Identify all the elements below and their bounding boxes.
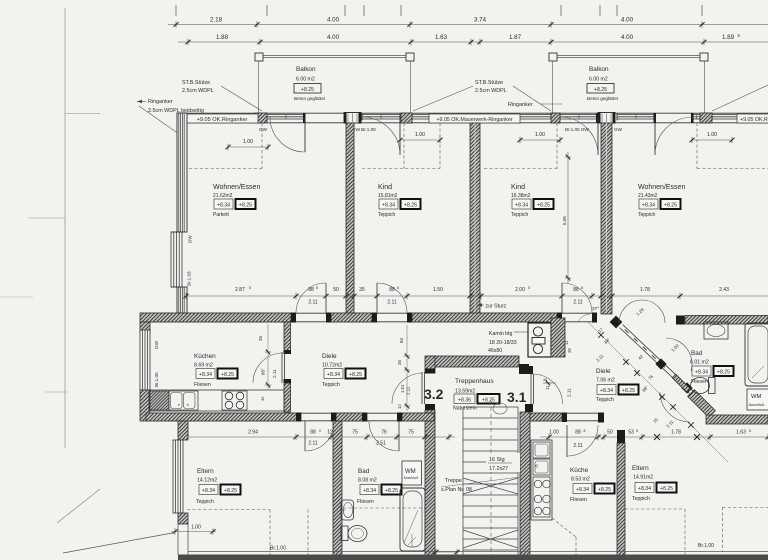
svg-text:Anschluß: Anschluß bbox=[404, 476, 419, 480]
svg-text:+8.34: +8.34 bbox=[638, 486, 651, 492]
svg-text:+8.25: +8.25 bbox=[598, 487, 611, 493]
svg-text:+8.34: +8.34 bbox=[600, 388, 613, 394]
svg-text:Parkett: Parkett bbox=[213, 212, 229, 218]
svg-text:Eltern: Eltern bbox=[632, 465, 649, 472]
svg-text:18 20-18/33: 18 20-18/33 bbox=[489, 340, 517, 346]
svg-text:+8.25: +8.25 bbox=[239, 202, 252, 208]
svg-text:Wohnen/Essen: Wohnen/Essen bbox=[213, 184, 260, 191]
svg-text:+8.25: +8.25 bbox=[404, 202, 417, 208]
svg-text:Küchen: Küchen bbox=[194, 353, 216, 360]
svg-text:+8.34: +8.34 bbox=[695, 369, 708, 375]
svg-text:1.00: 1.00 bbox=[191, 525, 201, 531]
svg-text:Teppich: Teppich bbox=[511, 212, 528, 218]
svg-text:+8.25: +8.25 bbox=[349, 372, 362, 378]
svg-text:Fliesen: Fliesen bbox=[194, 382, 211, 388]
svg-text:1.87: 1.87 bbox=[509, 34, 522, 41]
svg-text:+8.25: +8.25 bbox=[622, 388, 635, 394]
svg-text:+9.05 OK.R: +9.05 OK.R bbox=[740, 117, 768, 123]
svg-text:1.63: 1.63 bbox=[736, 430, 746, 436]
svg-text:7.06 m2: 7.06 m2 bbox=[596, 378, 615, 384]
svg-text:1.50: 1.50 bbox=[433, 287, 443, 293]
svg-text:Kind: Kind bbox=[378, 184, 392, 191]
svg-text:2.11: 2.11 bbox=[308, 441, 318, 447]
svg-text:3.1: 3.1 bbox=[507, 389, 527, 405]
svg-text:2.11: 2.11 bbox=[272, 369, 277, 378]
svg-text:zur Sturz: zur Sturz bbox=[486, 304, 507, 310]
svg-text:Naturstein: Naturstein bbox=[453, 406, 477, 412]
svg-text:88: 88 bbox=[575, 430, 581, 436]
svg-text:76: 76 bbox=[381, 430, 387, 436]
svg-text:+8.25: +8.25 bbox=[537, 202, 550, 208]
svg-text:2.18: 2.18 bbox=[210, 17, 223, 24]
svg-text:Diele: Diele bbox=[322, 353, 337, 360]
svg-text:+8.34: +8.34 bbox=[363, 488, 376, 494]
svg-text:3.74: 3.74 bbox=[474, 17, 487, 24]
svg-text:2.87: 2.87 bbox=[235, 287, 245, 293]
svg-text:11: 11 bbox=[564, 340, 569, 345]
svg-text:53: 53 bbox=[628, 430, 634, 436]
svg-text:e: e bbox=[187, 403, 189, 407]
svg-text:+8.25: +8.25 bbox=[221, 372, 234, 378]
svg-text:0: 0 bbox=[319, 429, 321, 433]
svg-text:2.51: 2.51 bbox=[376, 441, 386, 447]
svg-text:2.5cm WDPL: 2.5cm WDPL bbox=[182, 88, 214, 94]
svg-text:+8.34: +8.34 bbox=[217, 202, 230, 208]
svg-text:5: 5 bbox=[249, 286, 251, 290]
svg-text:+8.34: +8.34 bbox=[642, 202, 655, 208]
svg-text:16 Stg: 16 Stg bbox=[489, 457, 505, 463]
svg-text:Ringanker: Ringanker bbox=[508, 102, 533, 108]
svg-text:Teppich: Teppich bbox=[596, 397, 614, 403]
svg-text:Kind: Kind bbox=[511, 184, 525, 191]
svg-text:Fliesen: Fliesen bbox=[570, 497, 587, 503]
svg-text:Teppich: Teppich bbox=[196, 499, 214, 505]
svg-text:Ringanker: Ringanker bbox=[148, 99, 173, 105]
svg-text:13.59m2: 13.59m2 bbox=[455, 389, 475, 395]
svg-text:8: 8 bbox=[581, 286, 583, 290]
svg-text:WM: WM bbox=[751, 394, 761, 400]
svg-text:75: 75 bbox=[408, 430, 414, 436]
svg-text:8: 8 bbox=[584, 429, 586, 433]
svg-text:2.11: 2.11 bbox=[573, 300, 583, 306]
svg-text:83: 83 bbox=[399, 338, 404, 343]
svg-text:1.01: 1.01 bbox=[400, 384, 405, 393]
svg-text:Diele: Diele bbox=[596, 368, 611, 375]
svg-text:75: 75 bbox=[352, 430, 358, 436]
svg-text:2.00: 2.00 bbox=[515, 287, 525, 293]
svg-text:Fliesen: Fliesen bbox=[357, 499, 374, 505]
svg-text:Wohnen/Essen: Wohnen/Essen bbox=[638, 184, 685, 191]
svg-text:2.11: 2.11 bbox=[567, 388, 572, 397]
svg-text:+9.05 OK.Mauerwerk-Ringanker: +9.05 OK.Mauerwerk-Ringanker bbox=[436, 117, 512, 123]
svg-text:10.72m2: 10.72m2 bbox=[322, 363, 342, 369]
svg-text:8.08 m2: 8.08 m2 bbox=[358, 478, 377, 484]
svg-text:5: 5 bbox=[749, 429, 751, 433]
svg-text:50: 50 bbox=[607, 430, 613, 436]
svg-text:37°: 37° bbox=[592, 306, 599, 312]
svg-text:8.69 m2: 8.69 m2 bbox=[194, 363, 213, 369]
svg-text:GW Br.1.00: GW Br.1.00 bbox=[352, 127, 376, 132]
svg-text:+8.34: +8.34 bbox=[576, 487, 589, 493]
svg-text:2.11: 2.11 bbox=[406, 386, 411, 395]
svg-text:4.00: 4.00 bbox=[327, 17, 340, 24]
svg-text:2.94: 2.94 bbox=[248, 430, 258, 436]
svg-text:Br.1.00: Br.1.00 bbox=[270, 546, 286, 552]
svg-text:12: 12 bbox=[397, 404, 402, 409]
svg-text:2.11: 2.11 bbox=[308, 300, 318, 306]
svg-text:46x80: 46x80 bbox=[488, 348, 502, 354]
svg-text:12: 12 bbox=[327, 430, 333, 436]
svg-text:+8.25: +8.25 bbox=[660, 486, 673, 492]
svg-text:Br.1.03: Br.1.03 bbox=[187, 271, 192, 286]
svg-text:Teppich: Teppich bbox=[638, 212, 655, 218]
svg-text:3.2: 3.2 bbox=[424, 386, 444, 402]
svg-text:1.63: 1.63 bbox=[435, 34, 448, 41]
svg-text:2.43: 2.43 bbox=[719, 287, 729, 293]
svg-text:+8.34: +8.34 bbox=[199, 372, 212, 378]
svg-text:GW: GW bbox=[154, 340, 159, 349]
svg-text:14.12m2: 14.12m2 bbox=[197, 478, 217, 484]
svg-text:Beton geglättet: Beton geglättet bbox=[294, 96, 326, 101]
svg-text:Beton geglättet: Beton geglättet bbox=[587, 96, 619, 101]
svg-text:5: 5 bbox=[636, 429, 638, 433]
svg-text:1.00: 1.00 bbox=[415, 132, 425, 138]
svg-text:1.78: 1.78 bbox=[671, 430, 681, 436]
svg-text:+8.25: +8.25 bbox=[385, 488, 398, 494]
svg-text:+8.34: +8.34 bbox=[202, 488, 215, 494]
svg-text:6.00 m2: 6.00 m2 bbox=[589, 77, 608, 83]
svg-text:28: 28 bbox=[567, 348, 572, 353]
svg-text:88°: 88° bbox=[261, 368, 266, 375]
svg-text:Anschluß: Anschluß bbox=[749, 403, 766, 407]
svg-text:Küche: Küche bbox=[570, 467, 589, 474]
svg-text:4.00: 4.00 bbox=[327, 34, 340, 41]
svg-text:Teppich: Teppich bbox=[378, 212, 395, 218]
svg-text:Bad: Bad bbox=[358, 468, 370, 475]
svg-text:GW: GW bbox=[614, 127, 623, 132]
svg-text:Br.1.00: Br.1.00 bbox=[698, 543, 714, 549]
svg-text:1.00: 1.00 bbox=[549, 430, 559, 436]
svg-text:4.00: 4.00 bbox=[621, 17, 634, 24]
svg-text:2.11: 2.11 bbox=[573, 443, 583, 449]
svg-text:6.01 m2: 6.01 m2 bbox=[690, 360, 709, 366]
svg-text:2.5cm WDPL: 2.5cm WDPL bbox=[475, 88, 507, 94]
svg-text:2.11: 2.11 bbox=[387, 300, 397, 306]
svg-text:WM: WM bbox=[405, 469, 416, 475]
svg-text:5: 5 bbox=[528, 286, 530, 290]
svg-text:6: 6 bbox=[316, 286, 318, 290]
svg-text:1.00: 1.00 bbox=[535, 132, 545, 138]
svg-text:s.Plan Nr. 08: s.Plan Nr. 08 bbox=[441, 487, 472, 493]
svg-text:17.2x27: 17.2x27 bbox=[489, 466, 508, 472]
svg-text:Balkon: Balkon bbox=[296, 66, 316, 73]
svg-text:+9.05 OK.Ringanker: +9.05 OK.Ringanker bbox=[197, 117, 248, 123]
svg-text:4.00: 4.00 bbox=[621, 34, 634, 41]
svg-text:35: 35 bbox=[258, 336, 263, 341]
svg-text:+8.25: +8.25 bbox=[224, 488, 237, 494]
svg-text:88: 88 bbox=[310, 430, 316, 436]
svg-text:Balkon: Balkon bbox=[589, 66, 609, 73]
svg-text:1.89: 1.89 bbox=[722, 34, 735, 41]
svg-text:+8.25: +8.25 bbox=[301, 87, 314, 93]
svg-text:1.78: 1.78 bbox=[640, 287, 650, 293]
svg-text:35: 35 bbox=[359, 287, 365, 293]
svg-text:GW: GW bbox=[259, 127, 268, 132]
svg-text:+8.25: +8.25 bbox=[664, 202, 677, 208]
svg-text:88: 88 bbox=[389, 287, 395, 293]
svg-text:+8.25: +8.25 bbox=[717, 369, 730, 375]
svg-text:+8.25: +8.25 bbox=[482, 398, 495, 404]
svg-text:ST.B.Stütze: ST.B.Stütze bbox=[182, 80, 210, 86]
svg-text:1.88: 1.88 bbox=[216, 34, 229, 41]
svg-text:Treppe: Treppe bbox=[445, 478, 462, 484]
svg-text:5.05: 5.05 bbox=[562, 216, 567, 225]
svg-text:Eltern: Eltern bbox=[197, 468, 214, 475]
svg-text:6: 6 bbox=[397, 286, 399, 290]
svg-text:15.81m2: 15.81m2 bbox=[378, 193, 398, 199]
svg-text:50: 50 bbox=[333, 287, 339, 293]
svg-text:+8.34: +8.34 bbox=[327, 372, 340, 378]
svg-text:Br.1.00: Br.1.00 bbox=[154, 372, 159, 387]
svg-text:1.00: 1.00 bbox=[243, 139, 253, 145]
svg-text:36: 36 bbox=[397, 360, 402, 365]
svg-text:45: 45 bbox=[260, 396, 265, 401]
svg-text:Teppich: Teppich bbox=[322, 382, 340, 388]
svg-text:+8.34: +8.34 bbox=[382, 202, 395, 208]
svg-text:1.00: 1.00 bbox=[707, 132, 717, 138]
svg-text:21.62m2: 21.62m2 bbox=[213, 193, 233, 199]
svg-text:ST.B.Stütze: ST.B.Stütze bbox=[475, 80, 503, 86]
svg-text:6.00 m2: 6.00 m2 bbox=[296, 77, 315, 83]
svg-text:14.91m2: 14.91m2 bbox=[633, 475, 653, 481]
svg-text:11: 11 bbox=[545, 385, 550, 390]
svg-text:Treppenhaus: Treppenhaus bbox=[455, 378, 494, 385]
svg-text:+8.36: +8.36 bbox=[458, 398, 471, 404]
svg-text:Kamin btg: Kamin btg bbox=[489, 331, 512, 337]
svg-text:Teppich: Teppich bbox=[632, 496, 650, 502]
svg-text:21.43m2: 21.43m2 bbox=[638, 193, 658, 199]
svg-text:Br.1.00 GW: Br.1.00 GW bbox=[565, 127, 589, 132]
svg-text:DW: DW bbox=[188, 235, 193, 243]
svg-text:8.53 m2: 8.53 m2 bbox=[571, 477, 590, 483]
svg-text:Bad: Bad bbox=[691, 350, 703, 357]
svg-text:e: e bbox=[178, 403, 180, 407]
svg-text:+8.25: +8.25 bbox=[594, 87, 607, 93]
svg-text:+8.34: +8.34 bbox=[515, 202, 528, 208]
svg-text:16.38m2: 16.38m2 bbox=[511, 193, 531, 199]
